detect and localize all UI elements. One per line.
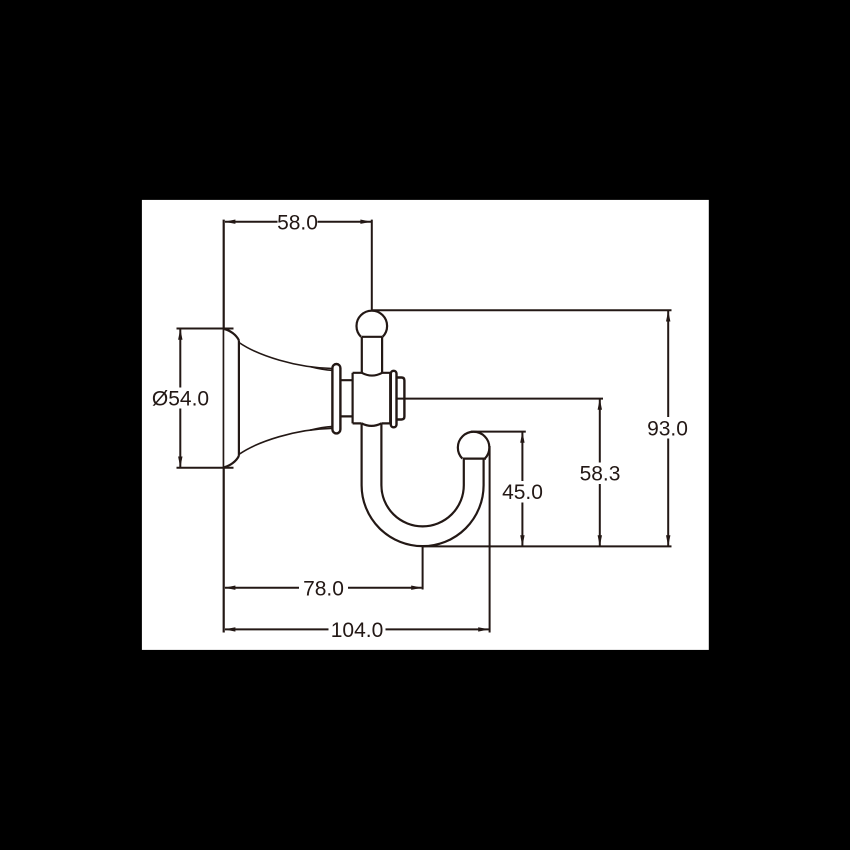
dim 78.0 dimension line — [225, 587, 422, 589]
wall face / extension line (left, shared by dims 58.0, 78.0, 104.0) — [223, 220, 225, 633]
dim 93.0 top extension line (from ball top) — [372, 309, 672, 311]
dim 104.0 right extension line (tangent to hook ball) — [489, 446, 491, 633]
dim 58.3 bottom arrow — [598, 535, 602, 546]
white drawing sheet — [142, 200, 709, 650]
svg-text:58.0: 58.0 — [277, 211, 318, 234]
flange base cylinder edge — [238, 340, 240, 456]
dim 58.3 top arrow — [598, 399, 602, 410]
flange base top corner — [224, 329, 239, 340]
dim 78.0 leader from hook bottom — [422, 546, 424, 589]
dim 58.0 left arrow — [224, 220, 235, 224]
stem between ball and block — [362, 336, 382, 338]
svg-text:93.0: 93.0 — [647, 417, 688, 440]
dim 58.0 dimension line — [225, 221, 371, 223]
dim 58.0 right extension line (post centerline) — [371, 220, 373, 311]
dim 78.0 left arrow — [224, 586, 235, 590]
svg-text:78.0: 78.0 — [303, 577, 344, 600]
dim 45.0 bottom arrow — [520, 535, 524, 546]
flange bell bottom curve — [239, 428, 332, 454]
end cap right of block — [393, 378, 404, 420]
svg-text:58.3: 58.3 — [580, 463, 621, 486]
hook inner contour — [381, 423, 463, 526]
hook outer contour — [362, 423, 484, 546]
collar ring right of block — [391, 371, 397, 428]
svg-text:45.0: 45.0 — [502, 481, 543, 504]
dim 104.0 dimension line — [225, 628, 489, 630]
flange neck contour bottom — [310, 426, 333, 430]
dim 58.3 extension line (block centerline) — [397, 398, 603, 400]
bottom shared extension line (hook lowest point) — [423, 545, 672, 547]
stem bottom cap arc — [362, 373, 382, 376]
collar ring at bell neck — [332, 364, 340, 433]
dim Ø54.0 dimension line — [179, 329, 181, 467]
dim Ø54.0 top extension line — [177, 328, 234, 330]
hook end ball — [458, 432, 490, 459]
dim 93.0 dimension line — [667, 311, 669, 546]
dim 104.0 right arrow — [478, 627, 489, 631]
svg-text:104.0: 104.0 — [331, 619, 384, 642]
dim 58.3 dimension line — [599, 399, 601, 546]
flange base bottom corner — [224, 456, 239, 467]
top ball — [356, 311, 387, 337]
dim 78.0 right arrow — [411, 586, 422, 590]
hook ball joint line — [463, 458, 486, 460]
dim Ø54.0 bottom extension line — [177, 467, 234, 469]
dim Ø54.0 bottom arrow — [178, 457, 182, 468]
dim Ø54.0 top arrow — [178, 329, 182, 340]
flange bell body fill — [224, 329, 332, 467]
central block — [353, 373, 391, 424]
dim 104.0 left arrow — [224, 627, 235, 631]
dim 45.0 extension line (hook ball top) — [471, 431, 526, 433]
hook tube top cap arc under block — [362, 423, 382, 426]
dim 45.0 top arrow — [520, 432, 524, 443]
flange bell top curve — [239, 343, 332, 369]
flange neck contour top — [310, 367, 333, 371]
neck cylinder between collar and block — [340, 380, 352, 416]
dim 93.0 top arrow — [666, 311, 670, 322]
dim 93.0 bottom arrow — [666, 535, 670, 546]
dim 45.0 dimension line — [521, 432, 523, 546]
dim 58.0 right arrow — [360, 220, 371, 224]
svg-text:Ø54.0: Ø54.0 — [152, 388, 209, 411]
